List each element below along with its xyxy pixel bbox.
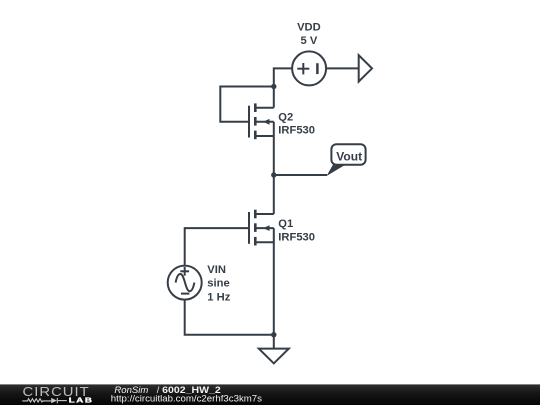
svg-text:VDD: VDD — [297, 22, 321, 34]
svg-text:1 Hz: 1 Hz — [207, 291, 230, 303]
svg-text:IRF530: IRF530 — [278, 125, 315, 137]
svg-text:VIN: VIN — [207, 264, 226, 276]
svg-text:sine: sine — [207, 278, 229, 290]
svg-text:Vout: Vout — [336, 149, 362, 163]
svg-text:LAB: LAB — [69, 396, 94, 404]
svg-text:IRF530: IRF530 — [278, 231, 315, 243]
svg-text:http://circuitlab.com/c2erhf3c: http://circuitlab.com/c2erhf3c3km7s — [111, 394, 263, 404]
svg-text:5 V: 5 V — [301, 35, 318, 47]
svg-text:Q1: Q1 — [278, 218, 293, 230]
svg-text:Q2: Q2 — [278, 112, 293, 124]
